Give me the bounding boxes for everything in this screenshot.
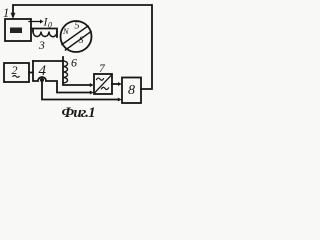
svg-text:8: 8 — [128, 83, 135, 98]
svg-text:0: 0 — [48, 21, 52, 30]
svg-text:Фиг.1: Фиг.1 — [62, 105, 95, 120]
svg-text:1: 1 — [3, 6, 9, 20]
svg-text:3: 3 — [38, 40, 45, 52]
svg-text:4: 4 — [39, 63, 47, 79]
svg-text:6: 6 — [71, 56, 77, 70]
svg-text:5: 5 — [75, 21, 80, 32]
svg-text:S: S — [79, 35, 84, 45]
